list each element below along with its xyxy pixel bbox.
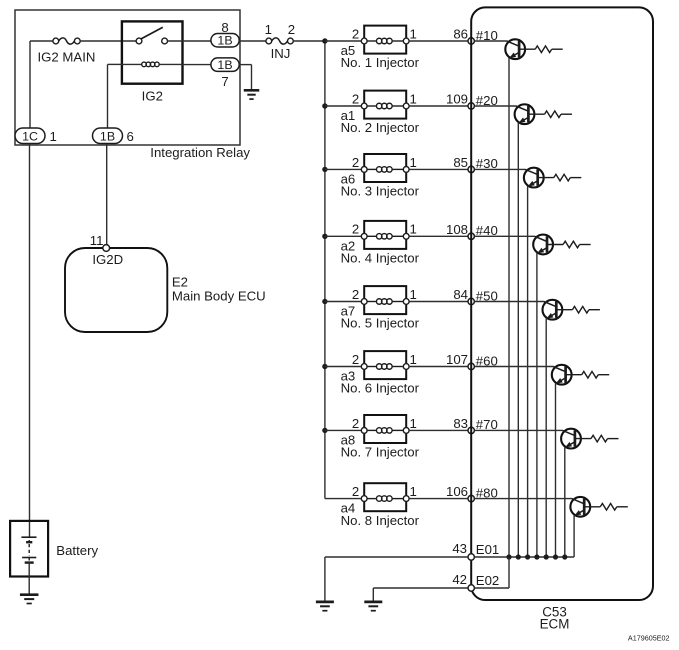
svg-text:No. 5 Injector: No. 5 Injector	[341, 316, 420, 331]
svg-text:109: 109	[446, 92, 468, 107]
svg-text:IG2 MAIN: IG2 MAIN	[38, 50, 96, 65]
ECM terminal #50	[468, 298, 474, 304]
svg-text:No. 2 Injector: No. 2 Injector	[341, 120, 420, 135]
ECM terminal #30	[468, 166, 474, 172]
svg-text:1: 1	[410, 484, 417, 499]
junction node on E01 bus (6)	[553, 554, 558, 559]
wire: 1B pin 7 to ground	[239, 64, 251, 66]
svg-text:ECM: ECM	[540, 616, 570, 631]
svg-text:2: 2	[352, 26, 359, 41]
resistor (base of injector No. 2 driver)	[528, 111, 572, 118]
junction node on E01 bus (1)	[506, 554, 511, 559]
wire: transistor emitter to E01 bus (row 1)	[508, 58, 510, 557]
svg-text:2: 2	[352, 287, 359, 302]
transistor (injector No. 6 driver)	[552, 365, 572, 385]
wire: E02 to chassis ground	[373, 587, 468, 589]
svg-text:108: 108	[446, 222, 468, 237]
junction node on supply bus (row 1)	[322, 38, 327, 43]
svg-text:6: 6	[127, 129, 134, 144]
junction node on supply bus (row 2)	[322, 103, 327, 108]
connector terminal 1B pin 8	[211, 34, 239, 48]
svg-text:2: 2	[352, 155, 359, 170]
transistor (injector No. 4 driver)	[533, 235, 553, 255]
junction node on E01 bus (2)	[516, 554, 521, 559]
svg-text:2: 2	[352, 484, 359, 499]
transistor (injector No. 8 driver)	[570, 497, 590, 517]
battery	[10, 521, 48, 577]
transistor (injector No. 1 driver)	[505, 39, 525, 59]
svg-text:84: 84	[453, 287, 468, 302]
svg-text:1: 1	[410, 416, 417, 431]
injector No. 2 (a1)	[361, 91, 409, 119]
wire: injector No. 5 pin 1 to ECM pin 84	[409, 301, 468, 303]
wire: injector No. 4 pin 1 to ECM pin 108	[409, 235, 468, 237]
svg-text:2: 2	[352, 222, 359, 237]
svg-text:No. 3 Injector: No. 3 Injector	[341, 184, 420, 199]
terminal pin 11 (IG2D)	[103, 245, 110, 252]
svg-text:2: 2	[288, 22, 295, 37]
junction node on E01 bus (5)	[544, 554, 549, 559]
wire: injector supply bus (vertical)	[324, 41, 326, 499]
Main Body ECU box (E2)	[65, 248, 167, 332]
wire: supply bus to injector No. 7 pin 2	[325, 429, 361, 431]
svg-text:106: 106	[446, 484, 468, 499]
svg-text:2: 2	[352, 352, 359, 367]
svg-text:7: 7	[221, 74, 228, 89]
junction node on supply bus (row 6)	[322, 364, 327, 369]
svg-text:Integration Relay: Integration Relay	[150, 145, 250, 160]
svg-text:Battery: Battery	[56, 543, 98, 558]
ECM terminal #20	[468, 103, 474, 109]
svg-text:E02: E02	[476, 573, 499, 588]
svg-text:E2: E2	[172, 274, 188, 289]
junction node on E01 bus (4)	[534, 554, 539, 559]
svg-text:11: 11	[90, 233, 104, 248]
wire: 1C pin 1 to battery positive	[29, 144, 31, 537]
ECM terminal #80	[468, 495, 474, 501]
wire: 1B pin 8 to fuse INJ	[239, 40, 266, 42]
wire: supply bus to injector No. 6 pin 2	[325, 366, 361, 368]
ECM box (C53)	[471, 7, 653, 600]
junction node on supply bus (row 3)	[322, 167, 327, 172]
wire: battery negative to ground	[28, 563, 30, 594]
injector No. 6 (a3)	[361, 351, 409, 379]
svg-text:A179605E02: A179605E02	[628, 633, 670, 642]
wire: relay switch to connector 1B pin 8	[168, 40, 212, 42]
wire: supply bus to injector No. 2 pin 2	[325, 105, 361, 107]
injector No. 4 (a2)	[361, 221, 409, 249]
junction node on E01 bus (3)	[525, 554, 530, 559]
wire: supply bus to injector No. 4 pin 2	[325, 235, 361, 237]
svg-text:No. 6 Injector: No. 6 Injector	[341, 381, 420, 396]
wire: transistor emitter to E01 bus (row 2)	[517, 123, 519, 557]
wire: transistor emitter to E01 bus (row 3)	[527, 186, 529, 557]
wire: transistor emitter to E01 bus (row 7)	[564, 447, 566, 557]
wire: injector No. 3 pin 1 to ECM pin 85	[409, 168, 468, 170]
injector No. 8 (a4)	[361, 483, 409, 511]
svg-text:1C: 1C	[22, 130, 38, 144]
svg-text:83: 83	[453, 416, 468, 431]
svg-text:107: 107	[446, 352, 468, 367]
svg-text:1: 1	[410, 155, 417, 170]
svg-text:42: 42	[452, 572, 467, 587]
svg-text:1B: 1B	[217, 34, 232, 48]
resistor (base of injector No. 8 driver)	[584, 504, 628, 511]
wire: battery feed up-leg inside relay box (node 1C to fuse IG2 MAIN)	[29, 41, 31, 128]
integration relay outer box	[15, 10, 240, 145]
wire: injector No. 7 pin 1 to ECM pin 83	[409, 429, 468, 431]
fuse INJ	[266, 38, 293, 44]
transistor (injector No. 5 driver)	[543, 300, 563, 320]
svg-text:1: 1	[410, 222, 417, 237]
wire: injector No. 1 pin 1 to ECM pin 86	[409, 40, 468, 42]
wire: injector No. 2 pin 1 to ECM pin 109	[409, 105, 468, 107]
relay IG2 switch contacts	[136, 27, 167, 44]
svg-text:Main Body ECU: Main Body ECU	[172, 288, 266, 303]
wire: supply bus to injector No. 3 pin 2	[325, 168, 361, 170]
ECM terminal #70	[468, 427, 474, 433]
wire: E02 internal horizontal	[474, 587, 509, 589]
svg-text:43: 43	[452, 541, 467, 556]
svg-text:85: 85	[453, 155, 468, 170]
svg-text:1: 1	[410, 91, 417, 106]
wire: ECM pin #50 to transistor collector	[474, 301, 544, 303]
wire: injector No. 8 pin 1 to ECM pin 106	[409, 498, 468, 500]
wire: ECM pin #20 to transistor collector	[474, 105, 516, 107]
ground (E02)	[364, 602, 382, 611]
ground (relay coil)	[244, 90, 260, 99]
wire: fuse IG2 MAIN to relay switch	[80, 40, 136, 42]
svg-text:86: 86	[453, 27, 468, 42]
transistor (injector No. 2 driver)	[515, 104, 535, 124]
svg-text:8: 8	[221, 20, 228, 35]
ground (battery)	[20, 595, 39, 604]
wire: transistor emitter to E01 bus (row 4)	[536, 253, 538, 557]
connector terminal 1C pin 1	[15, 128, 45, 144]
resistor (base of injector No. 6 driver)	[566, 371, 610, 378]
connector terminal 1B pin 7	[211, 58, 239, 72]
wire: E01 to chassis ground	[325, 556, 468, 558]
injector No. 7 (a8)	[361, 415, 409, 443]
transistor (injector No. 7 driver)	[561, 429, 581, 449]
wire: relay coil feed down-leg (to node 1B pin 6)	[108, 63, 122, 65]
wire: ECM pin #60 to transistor collector	[474, 366, 553, 368]
injector No. 3 (a6)	[361, 154, 409, 182]
wire: ECM pin #10 to transistor collector	[474, 40, 507, 42]
wire: transistor emitter to E01 bus (row 6)	[555, 383, 557, 557]
svg-text:2: 2	[352, 91, 359, 106]
relay IG2 coil	[122, 62, 183, 67]
svg-text:1B: 1B	[217, 58, 232, 72]
svg-text:IG2D: IG2D	[92, 252, 123, 267]
ECM terminal #40	[468, 233, 474, 239]
wire: ECM pin #70 to transistor collector	[474, 429, 562, 431]
resistor (base of injector No. 3 driver)	[538, 174, 582, 181]
svg-text:1: 1	[410, 26, 417, 41]
svg-text:IG2: IG2	[142, 89, 163, 104]
wire: transistor emitter to E01 bus (row 8)	[573, 515, 575, 557]
junction node on supply bus (row 5)	[322, 299, 327, 304]
ECM terminal E01	[468, 554, 474, 560]
wire: E01 internal emitter bus	[474, 556, 574, 558]
wire: injector No. 6 pin 1 to ECM pin 107	[409, 366, 468, 368]
wire: ECM pin #40 to transistor collector	[474, 235, 534, 237]
ECM terminal #60	[468, 363, 474, 369]
resistor (base of injector No. 1 driver)	[519, 46, 563, 53]
ground (E01)	[316, 602, 334, 611]
svg-text:1: 1	[410, 287, 417, 302]
resistor (base of injector No. 4 driver)	[547, 241, 591, 248]
junction node on E01 bus (7)	[562, 554, 567, 559]
wire: supply bus to injector No. 1 pin 2	[325, 40, 361, 42]
wire: ECM pin #80 to transistor collector	[474, 498, 572, 500]
wire: 1B pin 6 to Main Body ECU pin 11	[106, 144, 108, 245]
wire: supply bus to injector No. 8 pin 2	[325, 498, 361, 500]
svg-text:No. 7 Injector: No. 7 Injector	[341, 445, 420, 460]
fuse IG2 MAIN	[53, 38, 80, 44]
resistor (base of injector No. 7 driver)	[575, 435, 619, 442]
injector No. 5 (a7)	[361, 286, 409, 314]
svg-text:No. 4 Injector: No. 4 Injector	[341, 251, 420, 266]
relay IG2 box	[122, 21, 183, 83]
wire: relay coil to connector 1B pin 7	[183, 64, 212, 66]
ECM terminal E02	[468, 585, 474, 591]
svg-text:2: 2	[352, 416, 359, 431]
connector terminal 1B pin 6	[93, 128, 123, 144]
wire: fuse INJ to injector supply bus	[293, 40, 325, 42]
ECM terminal #10	[468, 38, 474, 44]
wire: E02 internal riser to E01 bus	[508, 557, 510, 588]
svg-text:INJ: INJ	[271, 46, 291, 61]
svg-text:1B: 1B	[100, 130, 115, 144]
svg-text:1: 1	[265, 22, 272, 37]
svg-text:1: 1	[50, 129, 57, 144]
wire: transistor emitter to E01 bus (row 5)	[545, 318, 547, 557]
wire: ECM pin #30 to transistor collector	[474, 168, 525, 170]
injector No. 1 (a5)	[361, 26, 409, 54]
svg-text:E01: E01	[476, 542, 499, 557]
resistor (base of injector No. 5 driver)	[556, 306, 600, 313]
wire: supply bus to injector No. 5 pin 2	[325, 301, 361, 303]
svg-text:1: 1	[410, 352, 417, 367]
svg-text:No. 8 Injector: No. 8 Injector	[341, 513, 420, 528]
svg-text:No. 1 Injector: No. 1 Injector	[341, 55, 420, 70]
junction node on supply bus (row 4)	[322, 234, 327, 239]
junction node on supply bus (row 7)	[322, 428, 327, 433]
transistor (injector No. 3 driver)	[524, 168, 544, 188]
